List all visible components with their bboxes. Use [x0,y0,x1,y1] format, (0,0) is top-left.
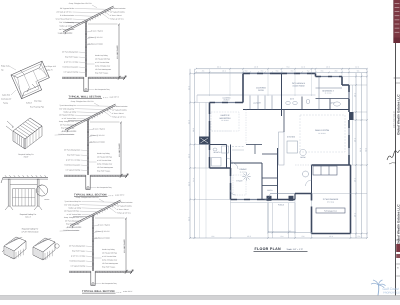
svg-text:4" Conc. Slab w/: 4" Conc. Slab w/ [91,30,104,33]
svg-text:BEDROOM: BEDROOM [220,117,231,120]
svg-text:9'-0: 9'-0 [287,65,290,68]
svg-text:#3 Bars @ 24" O.C.: #3 Bars @ 24" O.C. [90,134,105,137]
svg-text:5'-6: 5'-6 [358,235,361,238]
svg-text:M.BATH: M.BATH [214,151,221,154]
svg-text:Comp. Shingles Over 15# Felt: Comp. Shingles Over 15# Felt [71,100,94,103]
svg-text:STUDY: STUDY [236,180,243,183]
svg-text:Valley Fl.: Valley Fl. [46,69,53,72]
svg-text:9'-4: 9'-4 [281,235,284,238]
svg-text:Overhang 24": Overhang 24" [1,98,12,101]
svg-text:#3 Bars @ 24" O.C.: #3 Bars @ 24" O.C. [88,36,103,39]
svg-text:4" Conc. Slab w/: 4" Conc. Slab w/ [93,128,106,131]
svg-text:PROPERTIES: PROPERTIES [383,291,400,294]
svg-text:2x6 Fascia w/ Gutter: 2x6 Fascia w/ Gutter [95,237,111,240]
svg-text:70'-0: 70'-0 [364,148,367,152]
svg-text:Required Nailing For: Required Nailing For [22,228,39,231]
svg-text:22'-4: 22'-4 [217,65,221,68]
svg-text:KITCHEN: KITCHEN [287,136,296,139]
svg-text:TYPICAL WALL SECTION: TYPICAL WALL SECTION [74,194,107,197]
svg-text:Roof Framing Plan: Roof Framing Plan [30,106,44,109]
svg-text:3 CAR GARAGE: 3 CAR GARAGE [323,198,339,201]
svg-text:13'-0: 13'-0 [329,235,333,238]
svg-text:2x6 Fascia w/ Gutter: 2x6 Fascia w/ Gutter [90,141,106,144]
svg-text:Scale: 1/4" = 1'-0": Scale: 1/4" = 1'-0" [287,248,304,251]
svg-text:Drip Edge: Drip Edge [34,100,42,103]
svg-text:PORCH: PORCH [278,204,285,207]
svg-text:14'-6: 14'-6 [187,217,190,221]
svg-text:WALLS: WALLS [25,216,32,219]
svg-text:#3 Bars @ 24" O.C.: #3 Bars @ 24" O.C. [95,230,110,233]
svg-text:18'-2: 18'-2 [353,213,356,217]
svg-text:11'-0: 11'-0 [355,65,359,68]
svg-text:FAMILY ROOM: FAMILY ROOM [315,129,330,132]
svg-text:GAME ROOM: GAME ROOM [293,85,305,88]
svg-text:11'-6: 11'-6 [301,65,305,68]
svg-text:1420 S. Tyler Suite #3: 1420 S. Tyler Suite #3 [392,111,395,128]
svg-text:Hip: Hip [1,69,4,72]
svg-text:Gable End: Gable End [2,94,10,97]
svg-text:PATIO: PATIO [258,89,264,92]
svg-text:Soffit Vt: Soffit Vt [26,102,32,105]
svg-text:12'-8: 12'-8 [254,65,258,68]
svg-text:14'-6: 14'-6 [187,154,190,158]
svg-text:MASTER: MASTER [221,114,230,117]
svg-text:TYPICAL WALL SECTION: TYPICAL WALL SECTION [69,96,102,99]
svg-text:BATH: BATH [330,102,335,105]
svg-text:5'-8: 5'-8 [302,235,305,238]
svg-text:Global Wealth Estates LLC: Global Wealth Estates LLC [396,94,400,135]
svg-text:Roof Slope 6:12: Roof Slope 6:12 [44,65,56,68]
svg-text:13'-2: 13'-2 [247,235,251,238]
svg-text:8'-6: 8'-6 [212,235,215,238]
svg-text:UPLIFT RESISTANCE: UPLIFT RESISTANCE [22,230,40,233]
svg-text:8'-1 1/8" PLATE: 8'-1 1/8" PLATE [116,45,119,59]
svg-text:BEDROOM 3: BEDROOM 3 [322,89,333,92]
svg-text:Ridge Vent: Ridge Vent [1,65,10,68]
svg-text:2x6 Fascia w/ Gutter: 2x6 Fascia w/ Gutter [88,43,104,46]
svg-text:14'-6: 14'-6 [187,86,190,90]
svg-text:31'-8: 31'-8 [359,148,362,152]
svg-text:18'-2: 18'-2 [353,138,356,142]
svg-text:Global Wealth Estates LLC: Global Wealth Estates LLC [396,204,400,245]
svg-text:Required Nailing For: Required Nailing For [18,153,34,156]
svg-text:14'-6: 14'-6 [187,120,190,124]
svg-text:4" Conc. Slab w/: 4" Conc. Slab w/ [98,224,111,227]
svg-text:14'-6: 14'-6 [187,182,190,186]
svg-text:16'-2: 16'-2 [326,65,330,68]
svg-text:18'-2: 18'-2 [353,93,356,97]
svg-text:Full Garage Door: Full Garage Door [324,210,337,213]
svg-text:FLOOR PLAN: FLOOR PLAN [255,247,281,251]
svg-text:NOOK: NOOK [300,156,306,159]
svg-text:Gulf Coast: Gulf Coast [383,287,400,291]
svg-text:8'-1 1/8" PLATE: 8'-1 1/8" PLATE [123,239,126,253]
svg-text:Required Nailing For: Required Nailing For [20,213,37,216]
svg-text:Fascia: Fascia [3,102,8,105]
svg-text:60'-0: 60'-0 [192,128,195,132]
svg-text:TYPICAL WALL SECTION: TYPICAL WALL SECTION [82,290,115,293]
svg-text:8'-1 1/8" PLATE: 8'-1 1/8" PLATE [118,143,121,157]
svg-text:DINING: DINING [240,168,247,171]
svg-text:Comp. Shingles Over 15# Felt: Comp. Shingles Over 15# Felt [69,2,92,5]
svg-text:LAUNDRY: LAUNDRY [253,102,262,105]
svg-text:18'-2: 18'-2 [353,178,356,182]
